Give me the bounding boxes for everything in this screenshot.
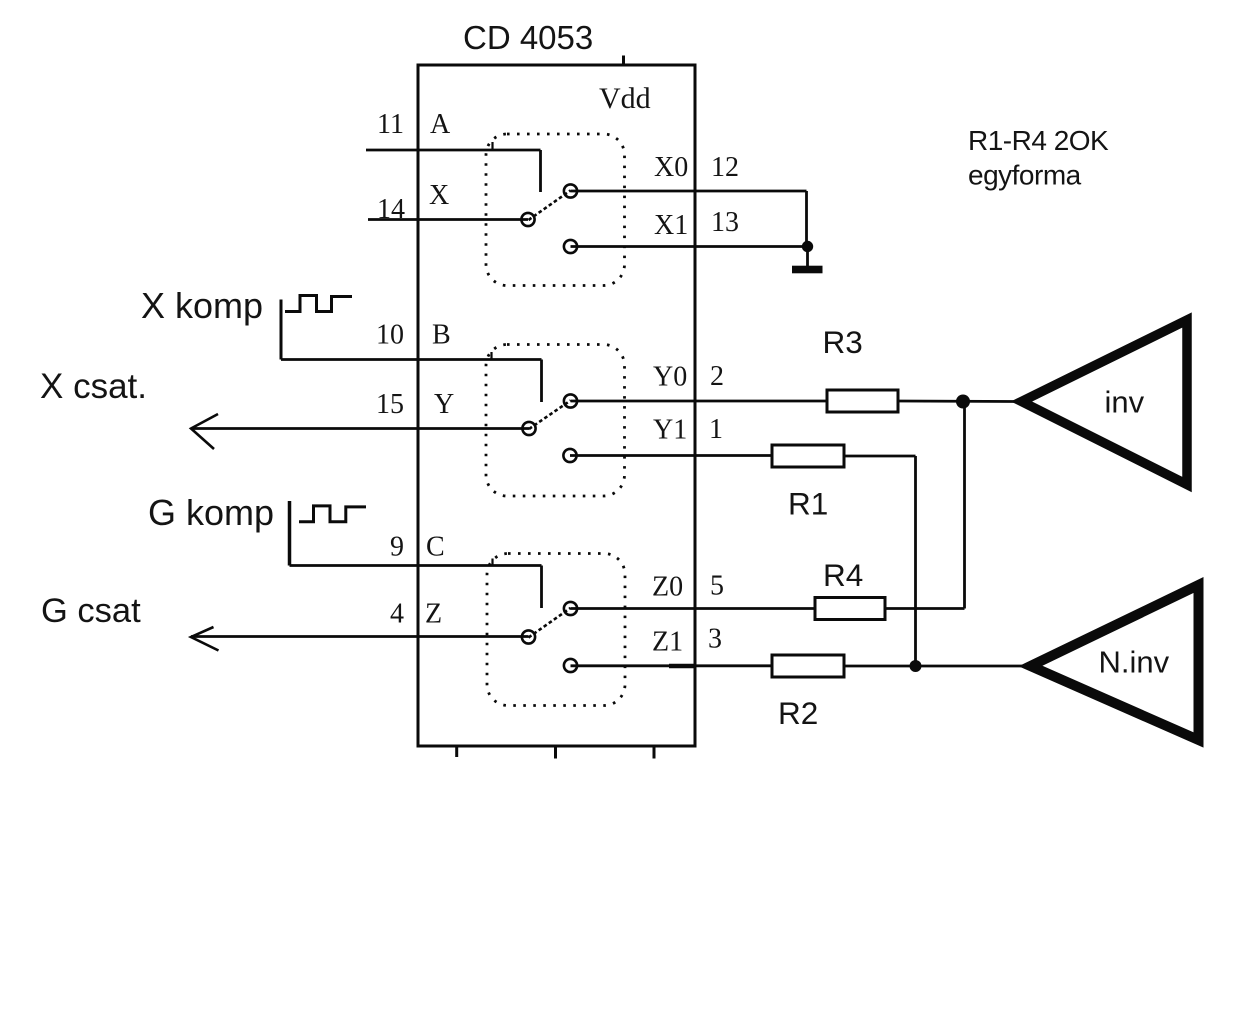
wire X0-X1 vertical <box>805 191 808 247</box>
wire R4 vertical up <box>963 402 966 609</box>
svg-text:12: 12 <box>711 152 739 183</box>
svg-text:C: C <box>426 532 445 563</box>
svg-text:Y0: Y0 <box>653 362 687 393</box>
svg-text:CD 4053: CD 4053 <box>463 19 593 56</box>
switch X lever <box>529 191 571 221</box>
arrowhead G csat <box>191 627 219 651</box>
svg-text:1: 1 <box>709 414 723 445</box>
switch Y pole circle <box>522 422 535 435</box>
switch X pole circle <box>521 213 534 226</box>
svg-text:R4: R4 <box>823 557 863 593</box>
wire B control vertical <box>540 360 543 403</box>
svg-text:Z: Z <box>425 599 442 630</box>
resistor R3 <box>827 390 898 412</box>
wire X komp vertical bar <box>280 300 283 360</box>
svg-text:Y: Y <box>434 389 454 420</box>
svg-text:Z1: Z1 <box>652 627 683 658</box>
svg-text:Y1: Y1 <box>653 415 687 446</box>
svg-text:X0: X0 <box>654 152 688 183</box>
svg-text:9: 9 <box>390 532 404 563</box>
pin stub bottom 1 <box>455 746 458 757</box>
op-amp N.inv triangle <box>1031 585 1199 740</box>
svg-text:G csat: G csat <box>41 592 141 630</box>
wire ground stub <box>806 247 809 267</box>
wire R3 to inv node <box>898 400 1015 403</box>
pin stub bottom 3 <box>653 746 656 759</box>
wire Y1 to R1 <box>570 454 772 457</box>
wire pin11 A control <box>366 149 541 152</box>
wire C control horizontal <box>290 564 542 567</box>
wire R4 right <box>885 607 965 610</box>
node N.inv input junction <box>910 660 922 672</box>
tick on C control <box>491 559 493 566</box>
tick on A control <box>491 142 493 150</box>
svg-text:13: 13 <box>711 207 739 238</box>
pin stub bottom 2 <box>554 746 557 759</box>
Vdd pin stub <box>622 56 625 66</box>
wire B control horizontal <box>281 358 542 361</box>
svg-text:inv: inv <box>1105 385 1145 420</box>
svg-text:egyforma: egyforma <box>968 160 1082 191</box>
svg-text:B: B <box>432 320 451 351</box>
wire Z1 to R2 <box>571 664 773 667</box>
arrowhead X csat <box>191 414 218 449</box>
svg-text:3: 3 <box>708 624 722 655</box>
wire Z0 to R4 <box>571 607 816 610</box>
wire pin14 X common <box>368 218 528 221</box>
resistor R2 <box>772 655 844 677</box>
op-amp inv triangle <box>1022 320 1188 485</box>
svg-text:N.inv: N.inv <box>1099 645 1170 680</box>
svg-text:G komp: G komp <box>148 492 274 533</box>
switch Y lever <box>529 401 571 430</box>
svg-text:11: 11 <box>377 109 404 140</box>
G komp pulse waveform <box>299 506 366 522</box>
svg-text:X komp: X komp <box>141 285 263 326</box>
wire Y0 to R3 <box>571 400 828 403</box>
svg-text:X1: X1 <box>654 210 688 241</box>
svg-text:R1: R1 <box>788 486 828 522</box>
node inv input junction <box>956 395 970 409</box>
wire A control vertical <box>539 150 542 192</box>
resistor R4 <box>815 598 885 620</box>
svg-text:A: A <box>430 109 451 140</box>
switch Z dotted box <box>487 554 625 706</box>
switch X throw X0 circle <box>564 184 577 197</box>
tick on B control <box>490 352 492 360</box>
switch Y dotted box <box>486 345 625 497</box>
svg-text:5: 5 <box>710 571 724 602</box>
switch Z throw Z1 circle <box>564 659 577 672</box>
svg-text:X: X <box>429 180 449 211</box>
svg-text:4: 4 <box>390 599 404 630</box>
switch Y throw Y1 circle <box>563 449 576 462</box>
svg-text:X csat.: X csat. <box>40 367 147 406</box>
switch Y throw Y0 circle <box>564 394 577 407</box>
switch Z throw Z0 circle <box>564 602 577 615</box>
svg-text:15: 15 <box>376 389 404 420</box>
wire X1 to ground net <box>571 245 809 248</box>
wire R2 to N.inv <box>844 665 1024 668</box>
X komp pulse waveform <box>285 296 352 312</box>
switch Z lever <box>529 608 571 638</box>
switch Z pole circle <box>522 630 535 643</box>
svg-text:R2: R2 <box>778 695 818 731</box>
wire Z common out <box>191 635 529 638</box>
wire R1 right <box>844 455 916 458</box>
svg-text:2: 2 <box>710 361 724 392</box>
svg-text:Z0: Z0 <box>652 572 683 603</box>
wire Z1 thick segment <box>669 664 696 669</box>
wire G komp vertical bar <box>288 501 292 566</box>
wire R1 vertical down <box>914 456 917 666</box>
wire Y common out <box>191 427 529 430</box>
switch X dotted box <box>486 134 625 286</box>
svg-text:10: 10 <box>376 320 404 351</box>
resistor R1 <box>772 445 844 467</box>
switch X throw X1 circle <box>564 240 577 253</box>
svg-text:R3: R3 <box>823 324 863 360</box>
svg-text:R1-R4 2OK: R1-R4 2OK <box>968 125 1109 156</box>
svg-text:Vdd: Vdd <box>599 82 651 115</box>
wire C control vertical <box>540 566 543 609</box>
wire X0 to ground net <box>571 190 807 193</box>
junction X0X1 ground <box>802 241 813 252</box>
chip U1 body <box>418 65 695 746</box>
ground <box>792 266 823 274</box>
